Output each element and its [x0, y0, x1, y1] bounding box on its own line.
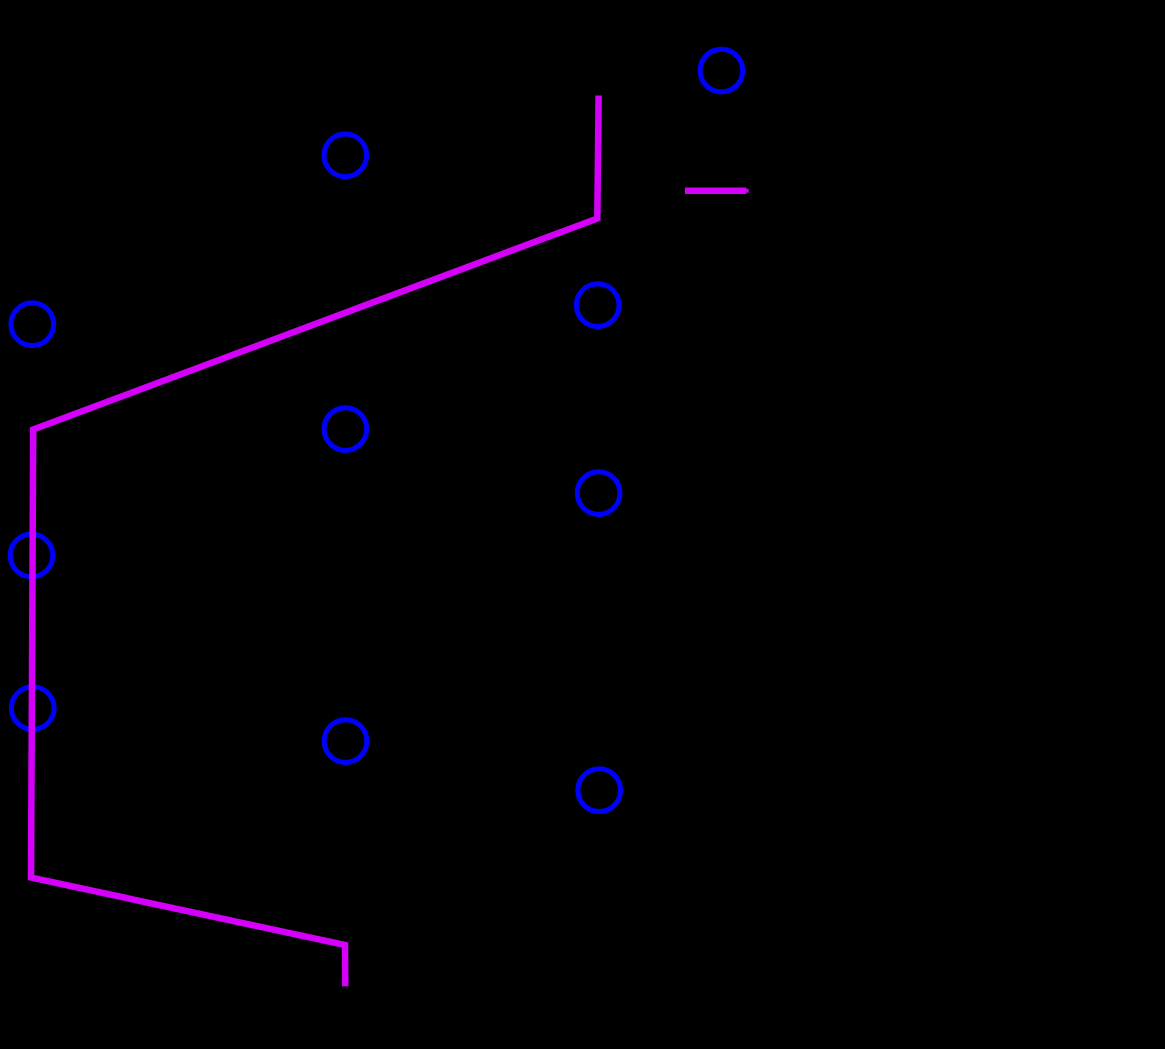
node circle 7	[10, 534, 53, 577]
node circle 6	[577, 472, 620, 515]
node circle 8	[11, 687, 54, 730]
short segment end nub	[746, 189, 748, 193]
node circle 3	[576, 284, 619, 327]
node circle 1	[700, 49, 743, 92]
node circle 9	[324, 720, 367, 763]
node circle 2	[324, 134, 367, 177]
path polyline	[31, 96, 599, 987]
node circle 4	[11, 303, 54, 346]
short segment	[685, 187, 746, 194]
node circle 10	[578, 769, 621, 812]
node circle 5	[324, 408, 367, 451]
